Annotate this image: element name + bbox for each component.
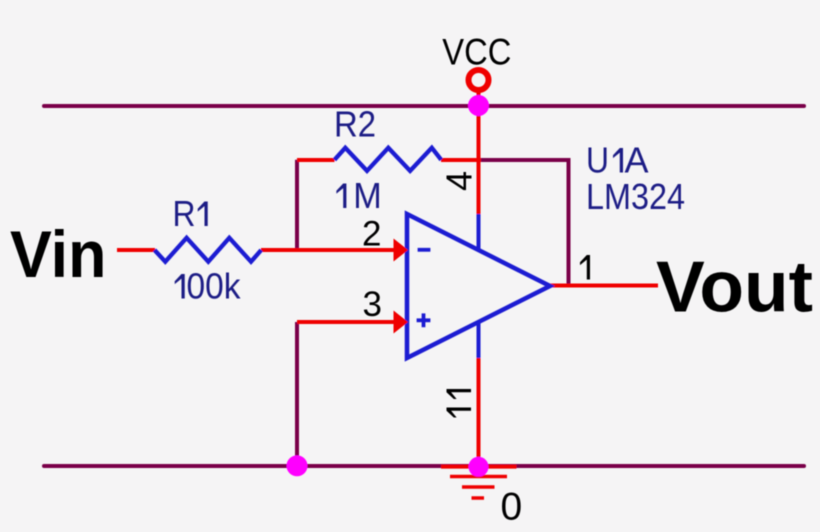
svg-text:Vin: Vin xyxy=(10,218,106,292)
svg-text:0: 0 xyxy=(501,486,523,529)
svg-text:LM324: LM324 xyxy=(586,176,685,217)
svg-text:00k: 00k xyxy=(187,266,242,307)
svg-text:R2: R2 xyxy=(334,104,376,145)
svg-text:A: A xyxy=(625,140,649,181)
svg-text:4: 4 xyxy=(439,171,480,191)
svg-text:R: R xyxy=(173,193,196,234)
svg-text:3: 3 xyxy=(363,285,382,324)
svg-text:Vout: Vout xyxy=(656,248,813,328)
svg-text:2: 2 xyxy=(362,215,381,254)
svg-text:U: U xyxy=(586,140,609,181)
svg-text:VCC: VCC xyxy=(442,31,511,72)
svg-text:M: M xyxy=(353,175,382,216)
